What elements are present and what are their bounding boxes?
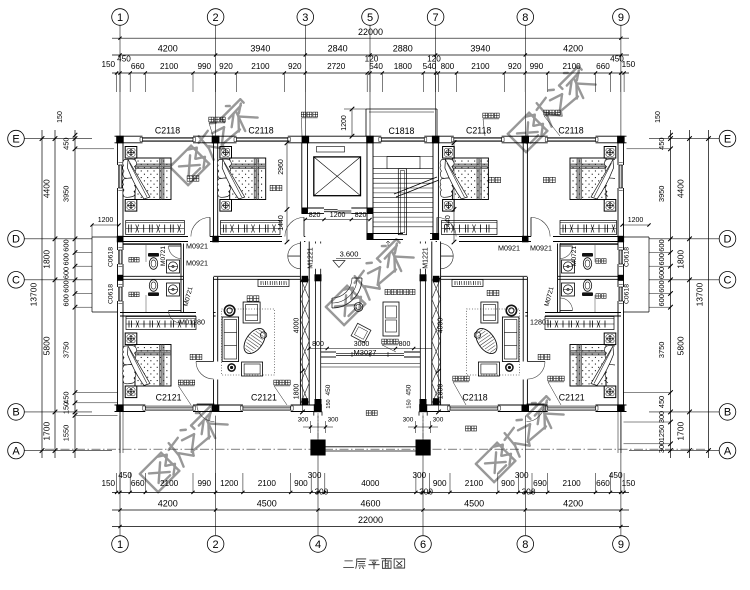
dim 2960 right (453, 143, 455, 210)
window C2121 bottom room-right (548, 405, 596, 407)
svg-text:900: 900 (433, 479, 447, 488)
dim 800 3000 800 hall (309, 348, 432, 350)
svg-text:1200: 1200 (220, 479, 239, 488)
door bedroom bottom-left from living (196, 361, 214, 363)
svg-text:5800: 5800 (42, 336, 52, 355)
bathroom top wall left-unit (123, 242, 181, 244)
window C0618 lower (117, 287, 119, 301)
watermark top-left (167, 95, 258, 186)
svg-text:22000: 22000 (358, 27, 383, 37)
svg-text:C2118: C2118 (155, 126, 180, 136)
bathroom top wall right-unit (560, 242, 618, 244)
bed bedroom top room 7-8 (443, 147, 455, 159)
svg-text:E: E (724, 133, 731, 145)
bedroom top wall bottom-left (120, 312, 196, 314)
watermark center (323, 235, 414, 326)
hall wall left inner (315, 242, 317, 244)
svg-text:2960: 2960 (278, 159, 285, 175)
svg-text:C2121: C2121 (251, 393, 277, 403)
svg-text:8: 8 (522, 12, 528, 24)
room label living right (487, 290, 492, 295)
hall round stool (354, 303, 363, 312)
bathroom mid wall left (120, 275, 183, 277)
left axis row lines (25, 138, 93, 140)
room label terrace (466, 426, 471, 431)
bathroom right wall left-unit (180, 244, 182, 314)
svg-text:920: 920 (219, 62, 233, 71)
door M0721 bathroom left lower (169, 310, 182, 312)
right axis bubbles (719, 130, 736, 147)
svg-text:3940: 3940 (470, 44, 490, 54)
top axis grid stems (119, 26, 121, 137)
corner door bottom-right bedroom (527, 403, 545, 405)
stair treads (373, 173, 433, 175)
elevator shaft walls (301, 143, 303, 214)
right axis row lines (649, 138, 719, 140)
svg-text:1800: 1800 (438, 384, 445, 400)
sofa set living room right (467, 309, 520, 375)
left dim extension lines (75, 148, 114, 150)
svg-text:820: 820 (309, 212, 321, 219)
wardrobe room 7-8 (442, 221, 498, 235)
svg-text:1700: 1700 (42, 421, 52, 440)
door M0921 room 8-9 (530, 217, 532, 236)
svg-text:4: 4 (315, 539, 321, 551)
svg-text:M1221: M1221 (308, 247, 315, 269)
door M0921 room1 (209, 217, 211, 236)
terrace column A left (310, 440, 325, 456)
dim 2960 elevator (286, 143, 288, 210)
svg-text:300: 300 (315, 488, 329, 497)
svg-text:4400: 4400 (676, 179, 686, 198)
svg-text:150: 150 (62, 402, 71, 414)
svg-text:C: C (724, 275, 732, 287)
dim 820 1200 820 elevator door (305, 219, 370, 221)
wardrobe room1 (126, 221, 185, 235)
svg-text:A: A (724, 445, 732, 457)
svg-text:1200: 1200 (628, 217, 644, 224)
left overall dimension 13700 (41, 130, 43, 458)
room label bath right lower (596, 294, 601, 299)
terrace railing axis A (45, 448, 705, 450)
svg-text:B: B (724, 407, 731, 419)
svg-text:M01280: M01280 (179, 318, 205, 327)
window C1818 top center (381, 136, 424, 138)
right dimension column detail (670, 130, 672, 458)
svg-text:8: 8 (522, 539, 528, 551)
svg-text:E: E (12, 133, 19, 145)
svg-text:600: 600 (657, 253, 666, 265)
right protrusion ledge (624, 236, 650, 238)
svg-text:300: 300 (419, 488, 433, 497)
window C2118 bottom living-right (450, 405, 498, 407)
room label bath left lower (129, 292, 134, 297)
bathroom mid wall right (558, 275, 621, 277)
svg-text:4000: 4000 (438, 318, 445, 334)
wall D corridor top (120, 236, 188, 238)
exterior wall left axis1 (117, 136, 119, 165)
svg-text:2100: 2100 (465, 479, 484, 488)
room label bath left upper (129, 257, 134, 262)
room label bedroom1 (187, 176, 192, 181)
svg-text:M1221: M1221 (423, 247, 430, 269)
svg-text:920: 920 (508, 62, 522, 71)
svg-text:C2118: C2118 (466, 126, 491, 136)
AC hole label top3 (483, 113, 488, 118)
svg-text:450: 450 (657, 138, 666, 150)
svg-text:300: 300 (403, 417, 414, 424)
room label bedroom 7-8 (489, 177, 494, 182)
svg-text:1200: 1200 (341, 115, 348, 131)
svg-text:1550: 1550 (62, 425, 71, 441)
svg-text:9: 9 (618, 539, 624, 551)
svg-text:M0921: M0921 (530, 244, 552, 253)
stair break line (394, 177, 437, 194)
elevator door (324, 209, 338, 211)
bathroom right lower fixtures (582, 280, 593, 296)
svg-text:450: 450 (117, 55, 131, 64)
svg-text:820: 820 (355, 212, 367, 219)
columns on wall E (116, 136, 124, 144)
elevator counterweight (317, 147, 345, 153)
svg-text:300: 300 (657, 441, 666, 453)
svg-text:900: 900 (501, 479, 515, 488)
AC hole label top2 (301, 112, 306, 117)
svg-text:990: 990 (197, 62, 211, 71)
svg-text:22000: 22000 (358, 515, 383, 525)
svg-text:1250: 1250 (657, 425, 666, 441)
svg-text:M0721: M0721 (571, 246, 578, 266)
svg-text:M0721: M0721 (160, 246, 167, 266)
svg-text:4500: 4500 (257, 499, 277, 509)
balcony side stubs below B (313, 412, 315, 416)
door M0721 bathroom left upper (169, 245, 182, 247)
svg-text:660: 660 (131, 62, 145, 71)
wardrobe bottom-left bedroom (126, 317, 196, 330)
svg-text:13700: 13700 (29, 283, 39, 307)
AC hole label bottom2 (274, 380, 279, 385)
room label hall (385, 289, 390, 294)
svg-text:150: 150 (101, 60, 115, 69)
svg-text:9: 9 (618, 12, 624, 24)
hall wall right inner (419, 242, 421, 244)
svg-text:300: 300 (433, 417, 444, 424)
svg-text:5: 5 (367, 12, 373, 24)
wardrobe room 8-9 (560, 221, 617, 235)
bottom dimension row detail (112, 491, 629, 493)
svg-text:600: 600 (62, 294, 71, 306)
bed bedroom top-left room1 (125, 147, 137, 159)
door M1221 right double leaf (441, 244, 454, 257)
dim 1440 right (453, 209, 455, 242)
hall furniture tv cabinet (383, 302, 399, 336)
interior wall axis2 upper (213, 143, 215, 237)
svg-text:660: 660 (596, 479, 610, 488)
svg-text:150: 150 (101, 479, 115, 488)
svg-text:C0618: C0618 (108, 284, 115, 304)
bed bedroom top room2 (220, 147, 232, 159)
svg-text:4200: 4200 (158, 44, 178, 54)
svg-text:3: 3 (302, 12, 308, 24)
AC hole label bottom1 (178, 380, 183, 385)
interior wall axis8 lower (522, 277, 524, 362)
bottom axis bubbles (112, 536, 129, 553)
svg-text:4400: 4400 (42, 179, 52, 198)
svg-text:1800: 1800 (42, 250, 52, 269)
room label living left (247, 296, 252, 301)
window C2121 bottom room1 (145, 405, 193, 407)
watermark bottom-left (137, 402, 228, 493)
svg-text:660: 660 (596, 62, 610, 71)
svg-text:300: 300 (298, 417, 309, 424)
svg-text:300: 300 (328, 417, 339, 424)
dim 300 300 left (303, 426, 333, 428)
top overall dimension line 22000 (112, 37, 629, 39)
svg-text:4200: 4200 (563, 499, 583, 509)
door M1221 left double leaf (288, 244, 301, 257)
svg-text:920: 920 (288, 62, 302, 71)
door M0721 bathroom right lower (560, 310, 573, 312)
svg-text:M0921: M0921 (186, 259, 208, 268)
hall tilted square table (351, 323, 371, 342)
left dimension column spans (54, 130, 56, 458)
left dimension column detail (74, 130, 76, 458)
svg-text:150: 150 (407, 399, 413, 408)
svg-text:C2121: C2121 (156, 393, 182, 403)
svg-text:600: 600 (62, 239, 71, 251)
svg-text:C: C (12, 275, 20, 287)
bathroom left upper fixtures (145, 245, 147, 263)
svg-text:4200: 4200 (563, 44, 583, 54)
svg-text:600: 600 (657, 294, 666, 306)
stairwell wall axis7 (432, 143, 434, 234)
svg-text:800: 800 (441, 62, 455, 71)
window C0618 right lower (618, 287, 620, 301)
svg-text:C0618: C0618 (624, 247, 631, 267)
stair railing (398, 169, 406, 235)
svg-text:990: 990 (197, 479, 211, 488)
bottom axis grid stems (119, 416, 121, 536)
hall wall left hatched (299, 242, 301, 406)
svg-text:3940: 3940 (250, 44, 270, 54)
dim 1200 left ledge (92, 224, 119, 226)
room label bedroom2 (270, 185, 275, 190)
bottom overall dimension line 22000 (112, 526, 629, 528)
svg-text:1800: 1800 (294, 384, 301, 400)
top extension line ends (116, 73, 118, 92)
svg-text:1800: 1800 (676, 250, 686, 269)
svg-text:900: 900 (294, 479, 308, 488)
stair bottom wall (367, 233, 403, 235)
door M0721 bathroom right upper (560, 245, 573, 247)
svg-text:120: 120 (427, 55, 441, 64)
svg-text:1200: 1200 (98, 217, 114, 224)
window C2118 top room 8-9 (548, 136, 596, 138)
svg-text:3.600: 3.600 (340, 250, 359, 259)
bed bedroom bottom-right (604, 333, 616, 345)
svg-text:600: 600 (657, 267, 666, 279)
svg-text:C1818: C1818 (389, 126, 415, 136)
svg-text:3750: 3750 (657, 342, 666, 358)
svg-text:2100: 2100 (258, 479, 277, 488)
svg-text:150: 150 (622, 479, 636, 488)
svg-text:1200: 1200 (330, 212, 346, 219)
sofa set living room left (222, 309, 275, 375)
window C0618 right upper (618, 250, 620, 264)
svg-text:12801: 12801 (530, 318, 550, 327)
svg-text:150: 150 (57, 111, 64, 123)
bathroom left lower fixtures (148, 280, 159, 296)
window right bedroom 8-9 (618, 165, 620, 188)
svg-text:3950: 3950 (657, 186, 666, 202)
wardrobe room2 (221, 221, 281, 235)
svg-text:300: 300 (515, 471, 529, 480)
svg-text:C0618: C0618 (108, 247, 115, 267)
bed bedroom top room 8-9 (604, 147, 616, 159)
svg-text:2: 2 (213, 539, 219, 551)
svg-text:5800: 5800 (676, 336, 686, 355)
svg-text:3750: 3750 (62, 342, 71, 358)
wardrobe bottom-right bedroom (545, 317, 614, 330)
window C2118 top room 2-3 (237, 136, 288, 138)
corner door bottom-left bedroom (197, 403, 215, 405)
svg-text:2100: 2100 (251, 62, 270, 71)
svg-text:C2118: C2118 (462, 393, 487, 403)
AC hole label bottom4 (548, 376, 553, 381)
svg-text:C0618: C0618 (624, 284, 631, 304)
exterior wall right axis9 (617, 136, 619, 165)
right dim extension lines (627, 148, 671, 150)
svg-text:13700: 13700 (695, 283, 705, 307)
svg-text:2100: 2100 (160, 479, 179, 488)
door M0921 room 7-8 (436, 217, 438, 236)
terrace column A right (416, 440, 431, 456)
svg-text:450: 450 (657, 396, 666, 408)
terrace side rails (119, 412, 121, 454)
title second floor plan (344, 559, 405, 569)
shoe cabinet left unit (258, 280, 289, 287)
AC hole label bottom3 (453, 376, 458, 381)
corridor bottom wall left (214, 275, 301, 277)
dim 1200 bay (351, 109, 353, 136)
columns on wall D (117, 236, 124, 243)
svg-text:150: 150 (622, 60, 636, 69)
svg-text:4500: 4500 (464, 499, 484, 509)
svg-text:D: D (724, 234, 732, 246)
left axis bubbles (8, 130, 25, 147)
svg-text:C2118: C2118 (558, 126, 583, 136)
svg-text:6: 6 (420, 539, 426, 551)
window left bedroom1 (117, 165, 119, 188)
svg-text:800: 800 (312, 341, 324, 348)
columns on wall B (116, 404, 124, 412)
watermark top-right (505, 62, 596, 153)
svg-text:C2118: C2118 (248, 126, 273, 136)
AC hole label hall (382, 339, 387, 344)
AC hole label top1 (209, 117, 214, 122)
right overall dimension 13700 (708, 130, 710, 458)
window C2121 bottom living-left (243, 405, 291, 407)
window C2118 top room 7-8 (454, 136, 502, 138)
svg-text:2100: 2100 (471, 62, 490, 71)
hall wall right hatched (431, 242, 433, 406)
right dimension column spans (689, 130, 691, 458)
svg-text:1700: 1700 (676, 421, 686, 440)
svg-text:660: 660 (131, 479, 145, 488)
elevator car (314, 157, 361, 196)
watermark bottom-right (473, 392, 564, 483)
door M0921 room2 (303, 217, 305, 236)
AC hole label top4 (544, 110, 549, 115)
svg-text:600: 600 (62, 267, 71, 279)
hall curved sofa (332, 278, 362, 308)
svg-text:C2121: C2121 (559, 393, 585, 403)
svg-text:2720: 2720 (327, 62, 346, 71)
svg-text:2100: 2100 (562, 62, 581, 71)
dim 1200 right ledge (622, 224, 649, 226)
svg-text:540: 540 (369, 62, 383, 71)
door bedroom bottom-right from living (527, 361, 545, 363)
svg-text:1: 1 (117, 12, 123, 24)
svg-text:M3027: M3027 (354, 348, 377, 357)
room label balcony (366, 411, 371, 416)
svg-text:300: 300 (657, 411, 666, 423)
bathroom left wall right-unit (557, 244, 559, 314)
svg-text:990: 990 (530, 62, 544, 71)
dim 1440 left (286, 209, 288, 242)
interior wall axis8 upper (522, 143, 524, 237)
svg-text:1: 1 (117, 539, 123, 551)
bedroom top wall bottom-right (525, 312, 528, 314)
svg-text:300: 300 (412, 471, 426, 480)
bay parapet above stair (366, 108, 437, 110)
svg-text:600: 600 (657, 280, 666, 292)
left protrusion ledge (92, 236, 118, 238)
shoe cabinet right unit (452, 280, 483, 287)
stair landing (373, 156, 433, 158)
dim 4000 1800 left of hall (302, 280, 304, 412)
dim 300 300 right (408, 426, 438, 428)
svg-text:450: 450 (325, 384, 332, 395)
stair arrow (387, 241, 389, 246)
interior wall axis2 lower (213, 277, 215, 362)
room label bedroom bottom-right (538, 354, 543, 359)
bathroom right upper fixtures (594, 245, 596, 263)
balcony threshold (321, 363, 421, 365)
svg-text:M0921: M0921 (498, 244, 520, 253)
window C0618 upper (117, 250, 119, 264)
svg-text:4600: 4600 (360, 499, 380, 509)
window C2118 top room 1-2 (143, 136, 194, 138)
svg-text:2: 2 (213, 12, 219, 24)
svg-text:7: 7 (433, 12, 439, 24)
svg-text:2840: 2840 (328, 44, 348, 54)
svg-text:3950: 3950 (62, 186, 71, 202)
top axis bubbles (112, 9, 129, 26)
bottom dimension row axis spans (112, 509, 629, 511)
svg-text:4000: 4000 (361, 479, 380, 488)
hall bottom wall with M3027 (321, 351, 336, 353)
room label bedroom bottom-left (190, 354, 195, 359)
room label bath right upper (596, 259, 601, 264)
svg-text:2100: 2100 (562, 479, 581, 488)
svg-text:300: 300 (308, 471, 322, 480)
svg-text:600: 600 (62, 253, 71, 265)
room label bedroom 8-9 (543, 177, 548, 182)
svg-text:600: 600 (657, 239, 666, 251)
svg-text:450: 450 (406, 384, 413, 395)
exterior wall E (top) (115, 135, 143, 137)
